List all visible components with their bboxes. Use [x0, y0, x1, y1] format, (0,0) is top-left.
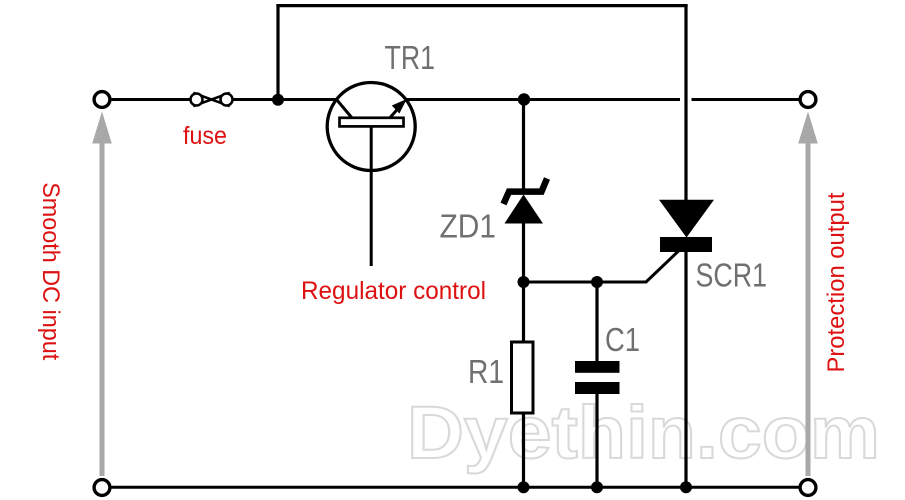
wire: right segment after gap: [692, 98, 800, 101]
input flow arrow (gray): [92, 112, 112, 477]
wire: C1 top lead: [595, 282, 598, 361]
capacitor C1: [575, 361, 620, 394]
wire: node A up to top rail: [276, 4, 279, 100]
thyristor SCR1: [659, 200, 714, 487]
svg-text:Smooth DC input: Smooth DC input: [37, 182, 64, 360]
wire: R1 to bottom rail: [522, 413, 525, 487]
wire: bottom rail: [111, 486, 800, 489]
node: SCR1 cathode junction: [680, 481, 692, 493]
node: C1 top junction: [591, 276, 603, 288]
wire: junction down to ZD1 cathode: [522, 100, 525, 192]
terminal: output - (bottom-right): [800, 480, 816, 496]
transistor TR1: [327, 83, 415, 267]
terminal: output + (top-right): [800, 92, 816, 108]
svg-text:TR1: TR1: [385, 39, 436, 76]
resistor R1: [512, 342, 534, 413]
wire: gate diagonal to SCR1: [646, 251, 679, 283]
node: ZD1 top junction: [518, 93, 530, 105]
node A (junction dot): [272, 94, 284, 106]
output flow arrow (gray): [798, 112, 818, 477]
svg-text:Protection output: Protection output: [823, 192, 850, 372]
svg-text:C1: C1: [605, 321, 640, 358]
node: R1 bottom junction: [518, 481, 530, 493]
wire: top rail down to SCR1 anode: [684, 4, 687, 201]
wire: gate net horizontal: [524, 281, 647, 284]
wire: TR1 emitter to output terminal (with hop gap at SCR wire): [406, 98, 680, 101]
node B (ZD1 / R1 / gate junction dot): [518, 276, 530, 288]
terminal: DC input - (bottom-left): [94, 480, 110, 496]
svg-text:SCR1: SCR1: [696, 257, 768, 294]
fuse F1: [191, 93, 233, 106]
wire: top rail: [276, 4, 687, 7]
node: C1 bottom junction: [591, 481, 603, 493]
svg-text:R1: R1: [468, 353, 504, 390]
svg-text:Regulator control: Regulator control: [301, 277, 486, 305]
wire: fuse to node A: [233, 98, 337, 101]
svg-text:fuse: fuse: [183, 122, 227, 150]
wire: node B down to R1: [522, 282, 525, 342]
zener diode ZD1: [504, 179, 548, 283]
wire: input terminal to fuse: [111, 98, 190, 101]
wire: C1 bottom lead: [595, 394, 598, 487]
terminal: DC input + (top-left): [94, 92, 110, 108]
svg-text:ZD1: ZD1: [440, 207, 497, 244]
